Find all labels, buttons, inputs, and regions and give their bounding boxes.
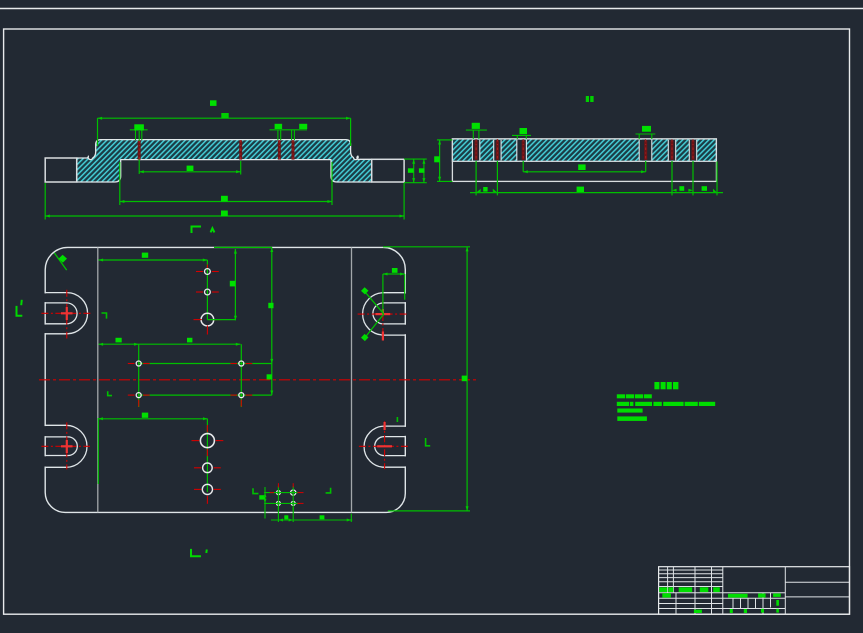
small marks in plan (102, 313, 431, 494)
dim bracket TR slot (383, 274, 405, 314)
dim top-left h (99, 259, 208, 261)
hole callout b2 (512, 135, 531, 139)
top edge dim overlap (214, 246, 272, 248)
title block green cells (659, 587, 780, 613)
red ticks mini cluster (270, 483, 304, 503)
slot hole 5 (668, 139, 675, 161)
title block grid (659, 567, 850, 615)
note line 3 (617, 409, 642, 413)
TR slot leader diagonal (365, 292, 384, 314)
mini cluster holes (276, 491, 280, 495)
slot hole 4 (639, 139, 652, 161)
hole t3 (201, 313, 214, 326)
dim vert small right of t3 (207, 249, 235, 320)
slot hole 6 (689, 139, 696, 161)
tech requirements title (654, 382, 678, 389)
hole bar 2 (239, 140, 242, 160)
corner chamfer leader TL (54, 253, 66, 270)
title block outer (659, 567, 850, 615)
slot BR centerlines (359, 421, 408, 469)
section A-A hatched body (77, 140, 372, 182)
top toolbar separator line (0, 8, 863, 10)
hole column bottom (206, 419, 208, 492)
mark L-tick below plan (191, 549, 207, 556)
section B lower plate (452, 139, 716, 182)
end block height dims (404, 159, 427, 183)
note line 1 (617, 394, 652, 398)
step line right (351, 247, 353, 512)
red ticks bottom column (192, 425, 224, 504)
plate outline (45, 247, 405, 512)
hole callout b3 (636, 134, 656, 139)
dimension arrowheads (45, 117, 717, 522)
hole callout b1 (466, 130, 487, 139)
mark L-tick left margin (17, 300, 23, 316)
overall height dim right (383, 247, 470, 511)
hole column top (206, 260, 208, 320)
mark gamma-A above plan (192, 227, 215, 234)
hole b2 (203, 463, 213, 473)
note line 4 (617, 416, 647, 421)
hole b1 (200, 434, 214, 448)
slot hole 1 (472, 139, 479, 161)
hole t1 (205, 269, 211, 275)
dim mid h (99, 343, 241, 345)
note line 2 (617, 402, 715, 406)
main centerline (39, 379, 478, 381)
slot hole 3 (517, 139, 527, 161)
hole callouts right pair (270, 130, 308, 140)
mid holes (136, 361, 141, 366)
dim hole span mid (523, 161, 646, 172)
red ticks mid holes (128, 364, 253, 407)
hole bar 4 (292, 140, 295, 160)
slot TR centerlines (358, 300, 409, 341)
hole t2 (205, 289, 211, 295)
dim overall width (45, 183, 404, 220)
chain dim vertical x271 (271, 247, 273, 395)
dim hole spacing (139, 161, 241, 175)
slot top-left (45, 293, 87, 334)
right end block (372, 159, 404, 182)
dim thickness left (437, 140, 452, 182)
red ticks top column (194, 265, 222, 335)
label 14 (586, 96, 589, 102)
step line left (97, 247, 99, 512)
hole b3 (202, 484, 212, 494)
dim top width line (98, 118, 351, 146)
dim bottom chain (470, 161, 723, 195)
slot BL centerlines (41, 422, 90, 469)
dim boss width (120, 162, 332, 205)
slot bottom-left (45, 425, 87, 467)
dim bottom-left h (98, 418, 207, 484)
left end block (45, 158, 76, 182)
slot top-right (363, 293, 406, 335)
hole bar 3 (278, 140, 281, 160)
hole bar 1 (138, 140, 141, 160)
leader diamonds (361, 287, 369, 294)
mini cluster green lines (264, 486, 352, 522)
slot bottom-right (364, 426, 405, 467)
section B hatched bar (452, 139, 716, 161)
slot hole 2 (494, 139, 501, 161)
hole callout left (130, 130, 148, 174)
slot TL centerlines (41, 290, 90, 339)
mid 4-hole box (139, 344, 272, 407)
dim top width text (210, 100, 217, 106)
slot edge gaps erase (44, 293, 407, 466)
